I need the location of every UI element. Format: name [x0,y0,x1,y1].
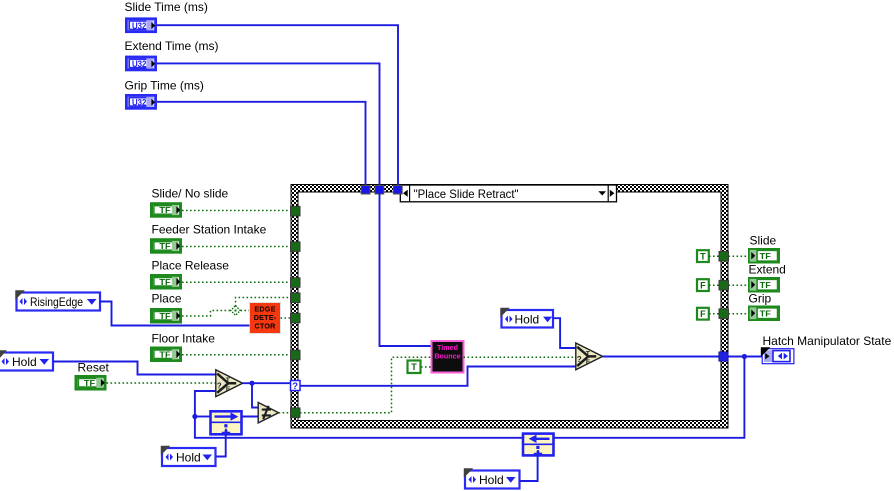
svg-text:?: ? [292,381,298,392]
svg-text:Place Release: Place Release [152,259,230,273]
junction dot loop net [192,414,197,419]
svg-text:Hold: Hold [12,355,37,369]
not-equal node [258,403,278,423]
wire Hold left (blue) to select T input [53,362,216,375]
svg-text:Grip Time (ms): Grip Time (ms) [125,79,204,93]
svg-text:T: T [700,251,706,261]
wire feedback1 initializer (blue) from Hold bottom-left [216,435,226,457]
svg-text:Hold: Hold [479,473,504,487]
enum constant Hold (left) [0,350,53,370]
boolean constant T (right, Slide) [697,250,709,262]
wire tunnel to Grip indicator (dotted green) [729,313,749,315]
wire T to tunnel (dotted green) [709,255,719,257]
tunnel green Slide out [719,252,729,262]
boolean control TF Feeder Station Intake [152,240,181,253]
svg-text:Floor Intake: Floor Intake [152,332,216,346]
svg-text:Slide Time (ms): Slide Time (ms) [125,0,208,14]
wire Grip Time (blue) [157,102,366,190]
enum indicator Hatch Manipulator State [761,347,794,363]
svg-text:Hold: Hold [515,312,540,326]
tunnel green Floor Intake [291,350,301,360]
numeric control U32 Extend Time [126,57,155,70]
svg-text:F: F [226,386,230,393]
junction dot Hatch state [742,354,747,359]
svg-text:RisingEdge: RisingEdge [30,295,83,309]
EDGE DETECTOR subVI [250,303,281,334]
boolean control TF Place Release [152,276,181,289]
wire inside: ? tunnel to select2 F input (blue) [300,367,576,386]
boolean control TF Floor Intake [152,348,181,361]
svg-text:Place: Place [152,292,182,306]
enum constant Hold (inside case) [500,308,553,328]
Timed Bounce subVI [432,341,464,373]
boolean indicator TF Extend [750,279,779,292]
svg-text:Hold: Hold [176,450,201,464]
wire Slide Time (blue) [157,25,398,190]
wire Reset (dotted green) to select ? input [107,382,216,384]
wire loop net (blue): feedback2 out to select F input [195,391,523,438]
wire not-equal output (dotted green) [279,412,291,414]
wire Place branch (dotted green) to tunnel [236,298,292,311]
case selector label "Place Slide Retract" [400,185,616,202]
wire inside: Extend tunnel down to Timed Bounce (blue) [380,193,432,346]
tunnel green Grip out [719,309,729,319]
wire tunnel to Extend indicator (dotted green) [729,284,749,286]
tunnel (blue) top Slide [393,185,402,194]
boolean control TF Reset [76,377,105,390]
svg-text:F: F [700,309,706,319]
wire F to tunnel (dotted green) [709,284,719,286]
wire Hold inside (blue) to select2 T input [553,318,576,348]
enum constant RisingEdge [15,290,100,310]
numeric control U32 Slide Time [126,19,155,32]
tunnel (blue) top Extend [375,185,384,194]
svg-text:Reset: Reset [78,361,110,375]
svg-text:CTOR: CTOR [254,321,276,330]
feedback node 2 (left arrow) [523,434,554,456]
tunnel green Slide/No slide [291,206,301,216]
wire inside: tunnel to Timed Bounce selector (dotted green) [300,357,431,412]
wire Place (dotted green) to junction and EDGE DETECTOR [182,311,250,317]
svg-text:F: F [700,280,706,290]
svg-text:?: ? [217,382,222,391]
svg-text:Extend: Extend [749,263,786,277]
boolean constant F (right, Extend) [697,279,709,291]
tunnel (blue) top Grip [361,185,370,194]
junction diamond (green) on Place wire [231,306,241,316]
tunnel green Feeder Station Intake [291,242,301,252]
svg-text:T: T [411,362,417,372]
wire T constant (dotted green) to Timed Bounce [421,366,431,368]
boolean control TF Place [152,310,181,323]
enum constant Hold (bottom) [464,468,520,488]
svg-text:Bounce: Bounce [434,352,460,361]
tunnel blue Hatch state out [719,352,728,361]
boolean indicator TF Slide [750,250,779,263]
case structure border (hatched) [291,185,728,429]
tunnel green Extend out [719,280,729,290]
tunnel green Place [291,293,301,303]
wire F to tunnel (dotted green) [709,313,719,315]
wire select2 output (blue) to right tunnel [603,356,719,358]
svg-text:Grip: Grip [749,292,772,306]
tunnel green not-equal out [291,408,301,418]
wire Slide/No slide (dotted green) [182,210,291,212]
wire Floor Intake (dotted green) [182,354,291,356]
svg-text:Slide: Slide [750,234,777,248]
selector tunnel ? on case left border [291,381,301,393]
boolean constant F (right, Grip) [697,308,709,320]
svg-text:?: ? [577,355,582,364]
svg-text:Feeder Station Intake: Feeder Station Intake [152,223,267,237]
wire tunnel to Slide indicator (dotted green) [729,255,749,257]
enum constant Hold (bottom-left) [161,446,216,466]
wire feedback1 output (blue) to not-equal bottom input [242,416,259,418]
wire Hatch state loop (blue) down and to feedback2 [554,357,745,438]
boolean control TF Slide/No slide [152,204,181,217]
junction dot select output [249,381,254,386]
svg-text:F: F [586,359,590,366]
wire feedback2 initializer (blue) from Hold bottom [520,456,538,482]
svg-text:"Place Slide Retract": "Place Slide Retract" [414,187,519,201]
wire Hatch state (blue) tunnel to indicator [728,356,762,358]
tunnel green EDGE DETECTOR out [291,313,301,323]
wire Timed Bounce output (dotted green) to select2 [464,356,576,358]
svg-text:Slide/ No slide: Slide/ No slide [152,187,229,201]
svg-text:Hatch Manipulator State: Hatch Manipulator State [763,334,892,348]
wire RisingEdge (blue) to EDGE DETECTOR [100,302,250,326]
select node 2 (inside case) [576,343,603,370]
svg-text:Extend Time (ms): Extend Time (ms) [125,39,219,53]
wire EDGE DETECTOR output (dotted green) [281,317,292,319]
wire branch (blue) to feedback1 input [195,416,210,418]
wire branch (blue) select out to not-equal top input [252,383,258,407]
wire Place Release (dotted green) [182,281,291,283]
boolean constant T (inside case) [408,361,421,374]
wire select output (blue) to ? tunnel [243,382,291,384]
select node (left) [216,370,243,397]
boolean indicator TF Grip [750,307,779,320]
feedback node 1 (right arrow) [211,411,242,434]
numeric control U32 Grip Time [126,95,155,108]
wire Extend Time (blue) [157,63,380,190]
tunnel green Place Release [291,278,301,288]
wire Feeder Station Intake (dotted green) [182,246,291,248]
